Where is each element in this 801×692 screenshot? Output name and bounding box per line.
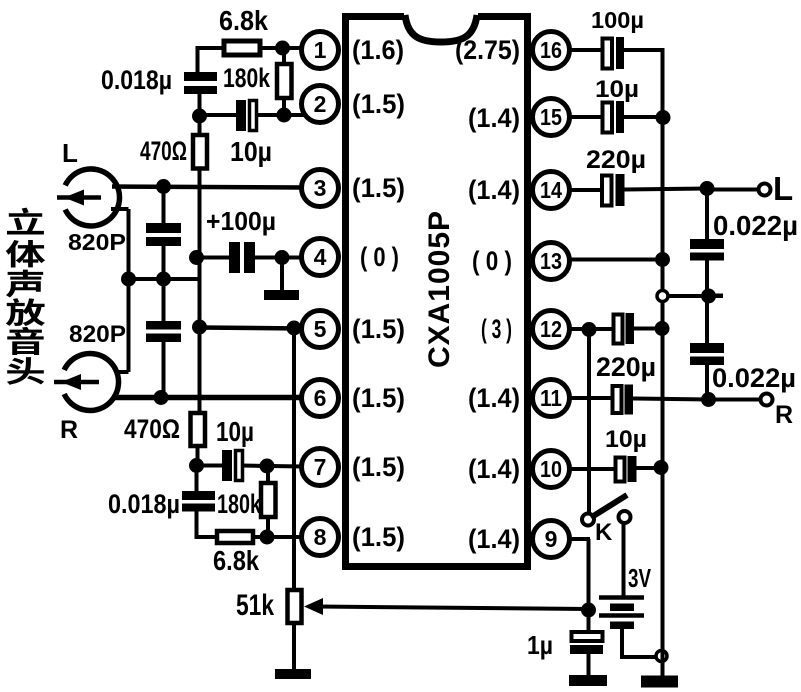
node pin6/820P junction	[154, 390, 169, 405]
wire to C4	[197, 256, 231, 260]
transducer head L circle	[65, 169, 119, 226]
capacitor C14 0.022u top lead	[705, 296, 709, 344]
pin 13	[533, 243, 570, 280]
node pin3/820P junction	[156, 179, 171, 194]
svg-text:(1.4): (1.4)	[468, 524, 520, 554]
wire switch to battery	[622, 523, 626, 596]
svg-text:10µ: 10µ	[216, 416, 254, 447]
wire C6 to pin7 node	[242, 466, 303, 467]
wire L head lower stub	[111, 207, 129, 211]
wire pin15 stub	[569, 115, 604, 119]
capacitor C8 100u electrolytic	[603, 39, 613, 69]
wire pin11 to R output	[632, 399, 709, 400]
node R-output junction	[701, 392, 716, 407]
wire 180k top lead	[282, 48, 286, 64]
node tie/head junction	[121, 272, 136, 287]
svg-text:11: 11	[540, 385, 562, 411]
wire 470R down long	[198, 168, 202, 258]
svg-text:820P: 820P	[69, 321, 126, 348]
wire C2 to pin2 node	[256, 113, 306, 117]
capacitor C11 0.022u top lead	[705, 188, 709, 240]
node pin7/180k junction	[260, 459, 275, 474]
pin 11	[533, 380, 570, 417]
wire pin10 stub	[569, 467, 616, 471]
node pin9/51k/1u junction	[581, 603, 596, 618]
node 470R2/C6 junction	[189, 458, 204, 473]
wire node to C2	[200, 113, 238, 117]
svg-text:0.022µ: 0.022µ	[713, 210, 798, 241]
svg-text:14: 14	[540, 177, 562, 203]
capacitor C13 220u electrolytic	[613, 386, 622, 413]
node 180k/10u/pin2 junction	[277, 108, 292, 123]
svg-text:R: R	[775, 401, 793, 429]
svg-text:(1.5): (1.5)	[352, 522, 405, 552]
wire ground stub pin4	[280, 258, 284, 293]
svg-text:6.8k: 6.8k	[213, 545, 259, 576]
svg-text:0.018µ: 0.018µ	[101, 65, 172, 95]
resistor R5 180k	[261, 483, 276, 517]
arrow 51k wiper	[304, 598, 323, 615]
svg-text:4: 4	[314, 244, 327, 270]
wire R head upper stub	[117, 370, 129, 374]
svg-text:10µ: 10µ	[605, 426, 647, 453]
svg-text:820P: 820P	[68, 229, 126, 255]
capacitor C6 10u electrolytic	[222, 450, 232, 481]
svg-text:10µ: 10µ	[595, 76, 639, 103]
wire 51k bottom lead	[292, 622, 296, 671]
wire L output lead	[707, 188, 758, 192]
svg-text:(1.5): (1.5)	[352, 314, 405, 344]
svg-text:180k: 180k	[217, 489, 262, 519]
pin 7	[302, 449, 339, 486]
wire 820P1 top lead	[162, 187, 166, 225]
capacitor C16 1u	[572, 632, 603, 641]
wire 820P2 bottom lead	[162, 340, 166, 399]
svg-text:(1.4): (1.4)	[468, 175, 520, 205]
capacitor C5 820P plates	[146, 321, 181, 330]
polarity dash	[714, 294, 723, 299]
capacitor C4 +100u	[229, 242, 240, 273]
wire pin9 down	[587, 539, 591, 611]
svg-text:3V: 3V	[628, 563, 651, 593]
wire common tie row	[129, 277, 200, 281]
ground 1u	[569, 675, 607, 686]
ground 51k	[275, 669, 311, 679]
node pin13/bus junction	[655, 252, 670, 267]
node C1/C2/470R junction	[192, 109, 207, 124]
wire bus to ground	[661, 650, 665, 677]
wire pin5 row	[200, 328, 304, 329]
wire C8 to bus corner	[623, 48, 665, 52]
svg-text:(1.4): (1.4)	[468, 454, 520, 484]
wire C7 to 6.8k	[195, 511, 199, 539]
pin 12	[533, 311, 570, 348]
node pin1/180k junction	[275, 41, 290, 56]
svg-text:(2.75): (2.75)	[455, 35, 520, 65]
svg-text:(1.5): (1.5)	[352, 452, 405, 482]
svg-text:(1.5): (1.5)	[352, 89, 405, 119]
wire 180k2 bottom lead	[266, 517, 270, 538]
svg-text:16: 16	[540, 37, 562, 63]
op-amp U1 CXA1005P IC body	[346, 17, 528, 567]
node C9/bus junction	[656, 110, 671, 125]
wire battery bottom lead	[620, 628, 624, 657]
svg-text:(1.4): (1.4)	[468, 383, 520, 413]
svg-text:L: L	[773, 170, 793, 207]
wire 1u top lead	[587, 610, 591, 632]
wire 51k feed line	[292, 328, 296, 590]
pin 10	[533, 451, 570, 488]
resistor R2 180k	[277, 64, 292, 98]
capacitor C9 10u electrolytic	[603, 103, 613, 133]
pin 16	[533, 32, 570, 69]
wire pin9 stub	[569, 537, 590, 541]
svg-text:K: K	[595, 519, 613, 546]
wire switch feed	[587, 329, 591, 514]
wire x199 mid segment	[198, 257, 202, 330]
wire 470R2 bottom lead	[196, 445, 200, 466]
wire C11 bottom lead	[705, 260, 709, 297]
wire 180k bottom lead	[282, 98, 286, 115]
svg-text:9: 9	[545, 526, 558, 552]
svg-text:CXA1005P: CXA1005P	[423, 210, 456, 368]
capacitor C7 0.018u plates	[182, 491, 215, 500]
svg-text:( 3 ): ( 3 )	[481, 314, 512, 344]
svg-text:7: 7	[314, 454, 327, 480]
svg-text:10: 10	[540, 456, 562, 482]
svg-text:R: R	[60, 416, 78, 444]
node pin5/x199 junction	[192, 320, 207, 335]
wire down to C1	[196, 46, 200, 73]
svg-text:(1.4): (1.4)	[468, 103, 520, 133]
wire x199 to 470R2	[198, 327, 202, 413]
svg-text:5: 5	[314, 316, 327, 342]
pin 15	[533, 99, 570, 136]
pin 4	[302, 239, 339, 276]
wire C14 bottom lead	[705, 365, 709, 400]
switch K left contact	[582, 514, 594, 526]
wire R output lead	[709, 398, 761, 402]
wire 6.8k left feed	[196, 46, 226, 50]
capacitor C10 220u electrolytic	[602, 176, 612, 206]
capacitor C3 820P plates	[146, 223, 181, 233]
terminal L output	[759, 184, 771, 196]
node pin4/ground junction	[275, 250, 290, 265]
terminal R output	[761, 394, 773, 406]
svg-text:1: 1	[314, 37, 327, 63]
pin 9	[533, 521, 570, 558]
wire 1u bottom lead	[587, 654, 591, 676]
pin 2	[302, 86, 339, 123]
arrow L head	[57, 195, 101, 200]
svg-text:+100µ: +100µ	[206, 206, 276, 236]
label stereo playback head (Chinese)	[7, 208, 44, 235]
node pin12/switch junction	[582, 322, 597, 337]
svg-text:( 0 ): ( 0 )	[360, 242, 399, 272]
svg-text:51k: 51k	[236, 589, 274, 622]
svg-text:3: 3	[314, 175, 327, 201]
pin 1	[302, 32, 339, 69]
node C15/bus junction	[654, 460, 669, 475]
wire ground link row	[663, 294, 709, 298]
switch K right contact	[619, 511, 631, 523]
wire C9 to bus	[623, 115, 664, 119]
wire pin11 stub	[569, 396, 613, 400]
wire to C6	[197, 464, 224, 468]
transducer head R circle	[64, 354, 118, 411]
svg-text:6: 6	[314, 385, 327, 411]
node L-output junction	[700, 181, 715, 196]
wire pin14 to L output	[624, 189, 708, 190]
svg-text:220µ: 220µ	[596, 352, 656, 382]
wire head common down	[127, 209, 131, 280]
svg-text:1µ: 1µ	[527, 630, 553, 660]
battery BT1 3V	[599, 595, 644, 600]
node +100u left junction	[189, 250, 204, 265]
wire pin14 stub	[569, 188, 603, 192]
svg-text:(1.5): (1.5)	[352, 173, 405, 203]
pin 14	[533, 172, 570, 209]
wire 470R top lead	[198, 116, 202, 135]
svg-text:15: 15	[540, 104, 562, 130]
wire 6.8k2 to pin8	[253, 535, 303, 539]
svg-text:0.022µ: 0.022µ	[712, 363, 796, 393]
pin 3	[302, 170, 339, 207]
wire 180k2 top lead	[266, 466, 270, 483]
capacitor C2 10u electrolytic	[236, 100, 246, 131]
svg-text:13: 13	[540, 248, 562, 274]
resistor R3 470ohm	[193, 135, 207, 169]
node bus ring junction	[657, 291, 668, 302]
node battery/bus ring	[656, 651, 667, 662]
arrow R head	[54, 380, 99, 385]
wire pin12 stub	[569, 327, 614, 331]
capacitor C1 0.018u plates	[184, 72, 217, 81]
ground bus	[641, 676, 678, 688]
potentiometer R7 51k	[288, 590, 302, 623]
wire C1 to node	[198, 94, 202, 116]
wire pin13 to bus	[569, 258, 663, 262]
resistor R6 6.8k	[217, 531, 253, 543]
switch K blade	[591, 495, 627, 518]
wire ground bus vertical	[661, 48, 665, 651]
resistor R1 6.8k	[224, 41, 260, 55]
wire pin3 row	[112, 187, 303, 188]
svg-text:100µ: 100µ	[591, 7, 644, 33]
ground pin4	[264, 290, 299, 300]
svg-text:180k: 180k	[223, 63, 271, 93]
svg-text:470Ω: 470Ω	[124, 414, 180, 444]
svg-text:10µ: 10µ	[230, 136, 272, 167]
wire 6.8k to node	[260, 46, 284, 50]
svg-text:220µ: 220µ	[586, 146, 646, 174]
svg-text:(1.6): (1.6)	[352, 35, 404, 65]
svg-text:L: L	[62, 138, 78, 168]
resistor R4 470ohm	[191, 413, 206, 446]
wire pin6 row	[112, 395, 303, 401]
node C12/bus junction	[655, 321, 670, 336]
node pin5/51k-line junction	[287, 321, 302, 336]
wire 820P2 top lead	[162, 279, 166, 322]
svg-text:2: 2	[314, 91, 327, 117]
node C11/link junction	[701, 289, 716, 304]
svg-text:( 0 ): ( 0 )	[472, 246, 512, 276]
node pin8/180k junction	[260, 530, 275, 545]
node tie/820P junction	[156, 272, 171, 287]
capacitor C12 220u electrolytic	[614, 315, 623, 344]
wire pin16 stub	[569, 48, 604, 52]
wire C7 top lead	[195, 465, 199, 492]
svg-text:6.8k: 6.8k	[219, 5, 268, 36]
wire pin1 stub	[282, 46, 302, 50]
capacitor C11 0.022u plates	[690, 239, 724, 249]
pin 5	[302, 311, 339, 348]
svg-text:8: 8	[314, 524, 327, 550]
pin 8	[302, 519, 339, 556]
capacitor C15 10u electrolytic	[616, 458, 625, 482]
wire C4 to pin4 node	[255, 256, 302, 260]
svg-text:470Ω: 470Ω	[140, 136, 187, 166]
capacitor C14 0.022u plates	[690, 343, 724, 353]
wire 820P1 bottom lead	[162, 246, 166, 280]
wire C12 to bus	[633, 327, 664, 331]
wire C15 to bus	[636, 466, 663, 470]
svg-text:(1.5): (1.5)	[352, 383, 405, 413]
svg-text:12: 12	[540, 316, 562, 342]
pin 6	[302, 380, 339, 417]
svg-text:0.018µ: 0.018µ	[108, 489, 180, 519]
